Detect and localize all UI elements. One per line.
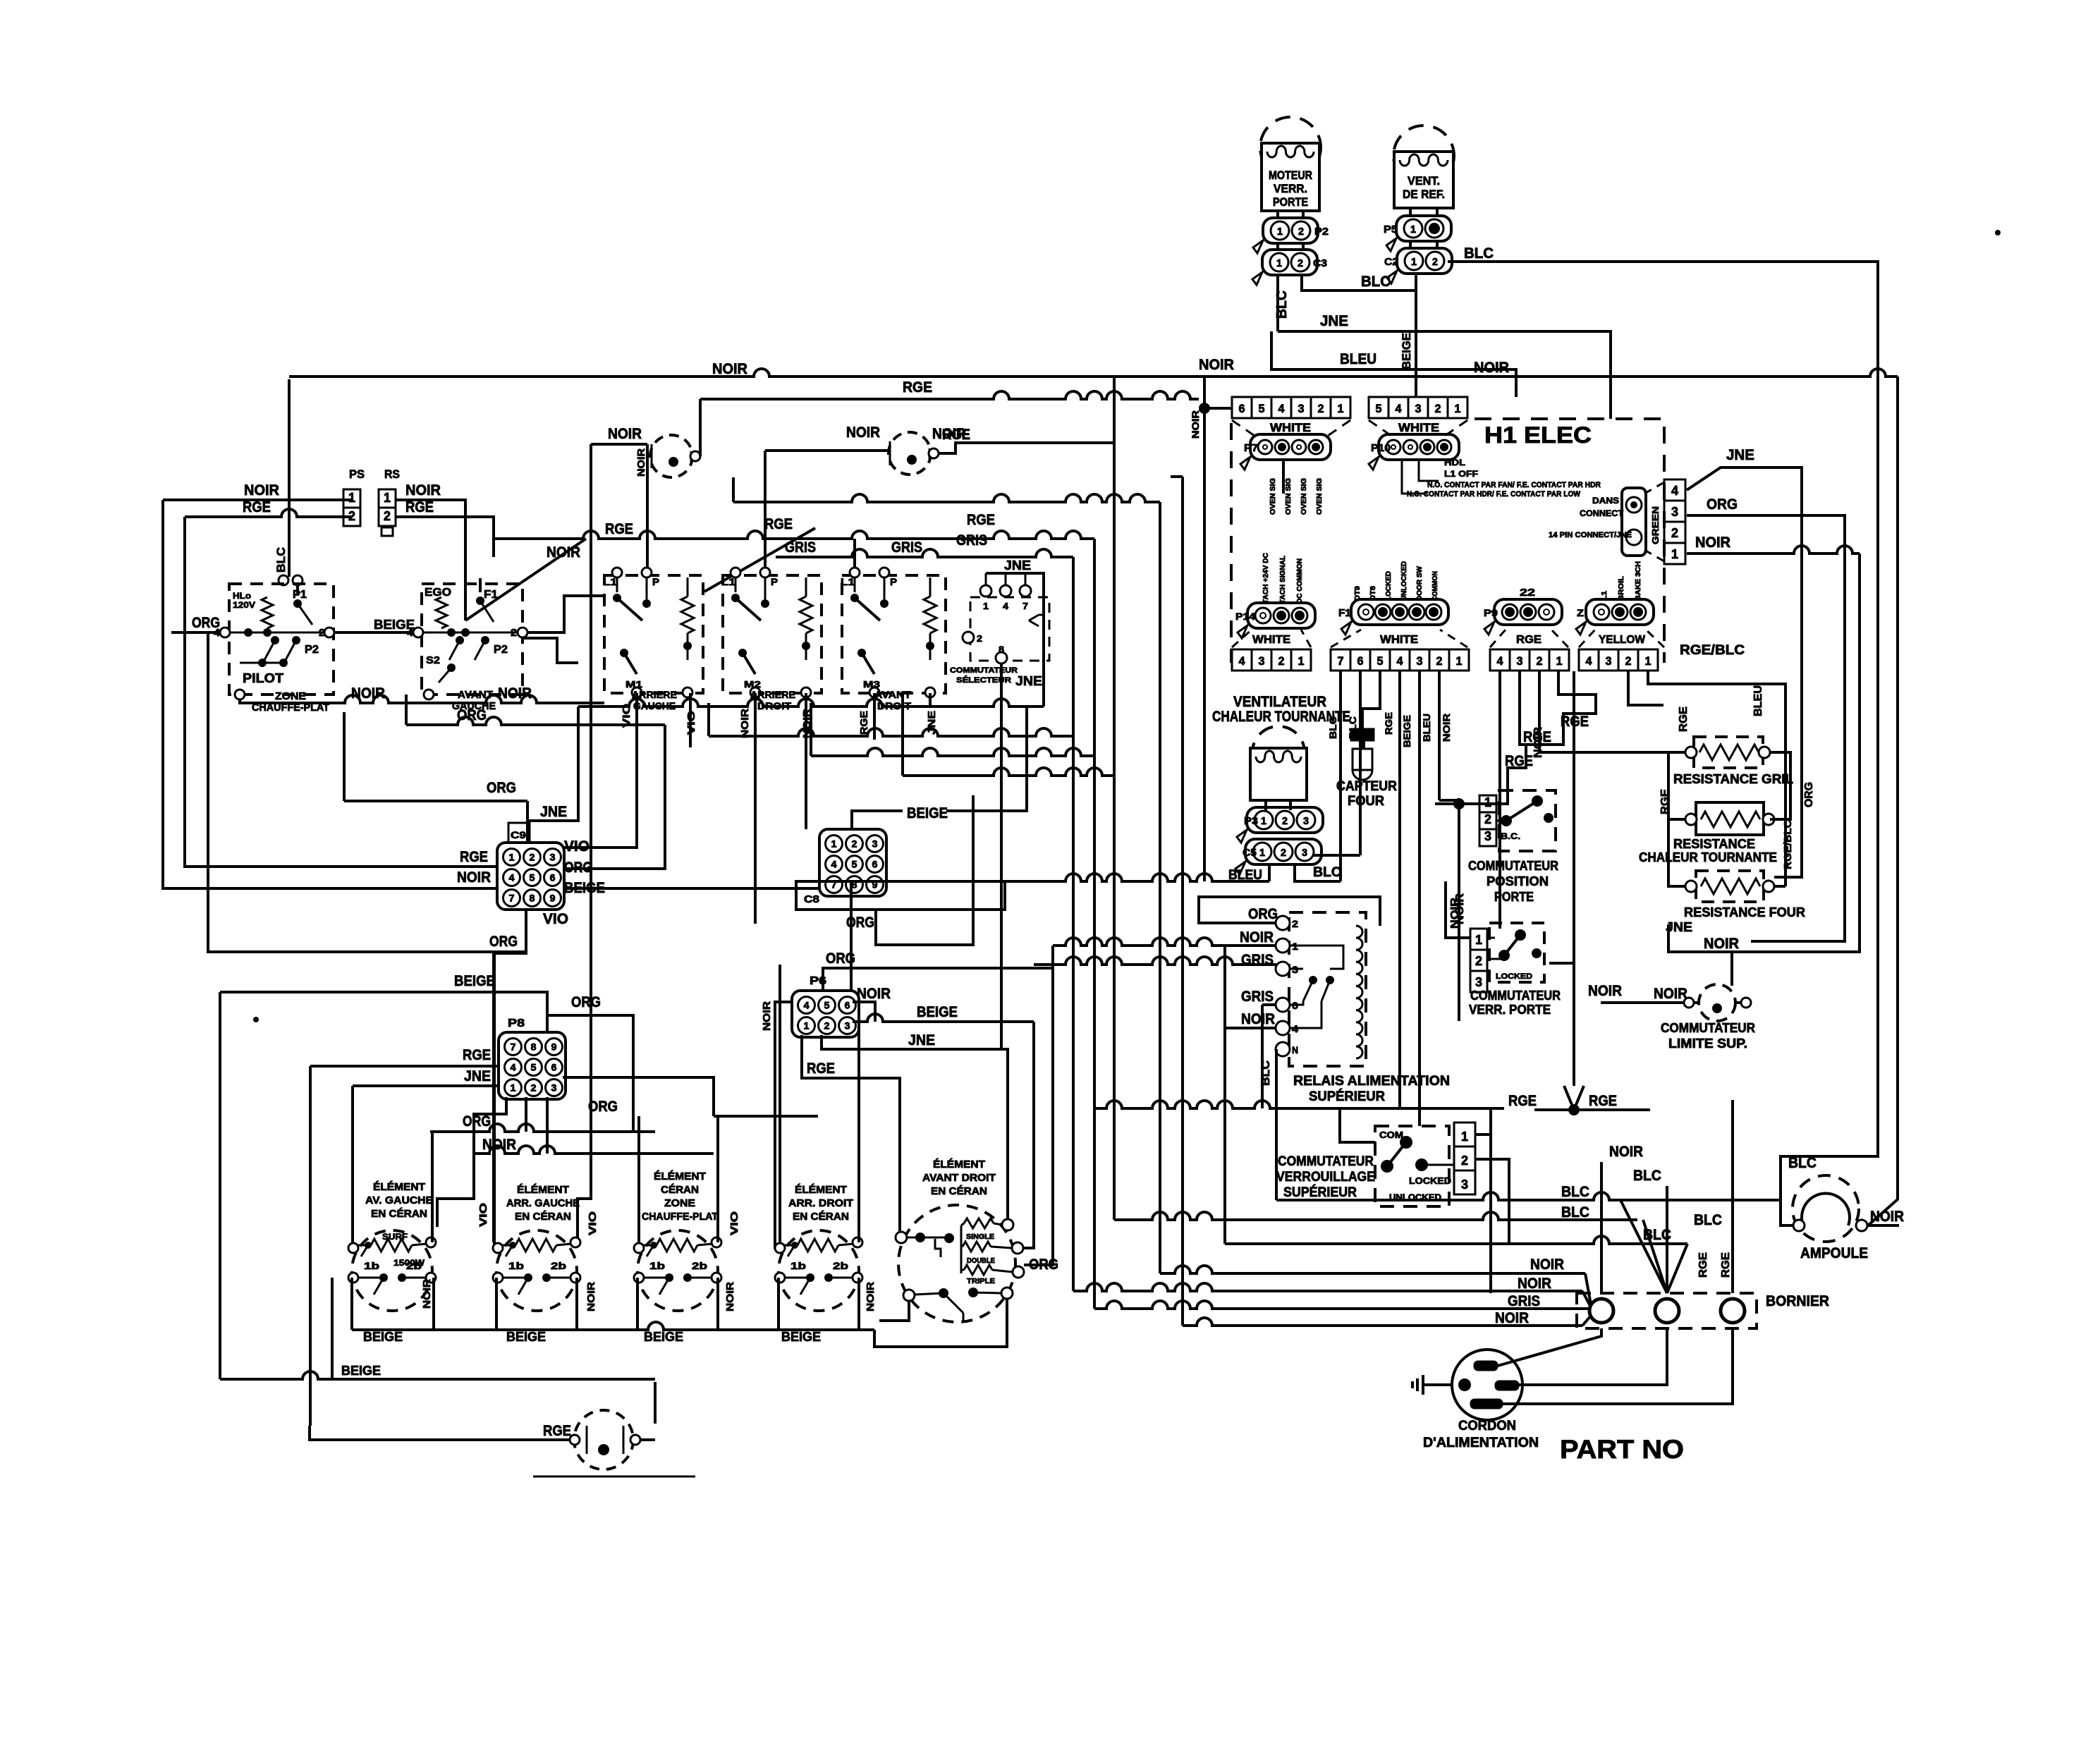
- svg-text:1: 1: [1671, 547, 1678, 561]
- svg-text:GRIS: GRIS: [785, 539, 816, 556]
- svg-text:NOIR: NOIR: [635, 448, 647, 477]
- svg-text:4: 4: [509, 872, 515, 883]
- svg-text:P3: P3: [1244, 815, 1258, 827]
- svg-text:ARR. GAUCHE: ARR. GAUCHE: [506, 1197, 580, 1209]
- svg-text:SINGLE: SINGLE: [966, 1233, 994, 1241]
- svg-text:C2: C2: [1384, 256, 1398, 268]
- svg-text:ORG: ORG: [826, 950, 855, 967]
- svg-text:MOTEUR: MOTEUR: [1269, 169, 1312, 182]
- svg-text:3: 3: [1298, 402, 1305, 415]
- svg-text:EN CÉRAN: EN CÉRAN: [931, 1185, 987, 1197]
- svg-text:C5: C5: [1243, 847, 1257, 859]
- svg-text:BROIL: BROIL: [1618, 576, 1625, 601]
- svg-text:PS: PS: [349, 467, 365, 481]
- svg-text:BLEU: BLEU: [1752, 685, 1764, 716]
- svg-text:M3: M3: [863, 679, 880, 690]
- svg-text:7: 7: [1022, 601, 1028, 611]
- svg-text:M2: M2: [744, 679, 761, 690]
- svg-text:1: 1: [509, 852, 515, 863]
- svg-text:2: 2: [1461, 1154, 1468, 1168]
- svg-text:NOIR: NOIR: [1530, 1256, 1564, 1273]
- svg-text:Z: Z: [1577, 607, 1585, 618]
- svg-text:CÉRAN: CÉRAN: [661, 1184, 699, 1196]
- svg-text:HDL: HDL: [1444, 458, 1465, 467]
- svg-text:EN CÉRAN: EN CÉRAN: [371, 1208, 427, 1220]
- svg-text:VENT.: VENT.: [1408, 174, 1440, 188]
- svg-text:COMMON: COMMON: [1431, 571, 1439, 601]
- svg-text:DE REF.: DE REF.: [1403, 188, 1445, 201]
- svg-text:2: 2: [1671, 526, 1678, 540]
- svg-text:L1: L1: [721, 576, 735, 587]
- svg-text:N.O. CONTACT PAR HDR/ F.E. CON: N.O. CONTACT PAR HDR/ F.E. CONTACT PAR L…: [1407, 490, 1581, 499]
- svg-text:SUPÉRIEUR: SUPÉRIEUR: [1283, 1185, 1357, 1200]
- svg-text:8: 8: [530, 893, 535, 904]
- svg-text:3: 3: [1259, 654, 1265, 668]
- svg-text:NOIR: NOIR: [1199, 357, 1234, 373]
- svg-text:RGE: RGE: [1720, 1252, 1732, 1278]
- svg-text:RGE: RGE: [1505, 753, 1533, 769]
- svg-text:AVANT DROIT: AVANT DROIT: [922, 1172, 996, 1184]
- svg-text:PART NO: PART NO: [1560, 1435, 1684, 1464]
- svg-text:ORG: ORG: [846, 915, 874, 931]
- svg-text:5: 5: [852, 859, 857, 870]
- svg-text:4: 4: [831, 859, 837, 870]
- svg-text:BLC: BLC: [1259, 1060, 1272, 1086]
- svg-text:NOIR: NOIR: [865, 1282, 877, 1311]
- svg-text:GRIS: GRIS: [891, 539, 922, 556]
- svg-text:P10: P10: [1371, 442, 1391, 454]
- svg-text:RGE: RGE: [764, 516, 793, 532]
- svg-text:P9: P9: [1484, 607, 1498, 618]
- svg-text:3: 3: [1606, 654, 1612, 668]
- svg-text:1500W: 1500W: [393, 1258, 425, 1268]
- svg-text:ORG: ORG: [1707, 496, 1738, 513]
- svg-text:1: 1: [804, 1020, 810, 1032]
- svg-text:BLC: BLC: [1561, 1204, 1589, 1221]
- svg-text:1: 1: [1456, 654, 1463, 668]
- svg-text:5: 5: [530, 872, 535, 883]
- svg-text:GRIS: GRIS: [1508, 1293, 1540, 1309]
- svg-text:6: 6: [845, 1000, 850, 1011]
- svg-text:CHALEUR TOURNANTE: CHALEUR TOURNANTE: [1212, 709, 1350, 725]
- svg-text:2: 2: [1625, 654, 1632, 668]
- svg-text:NOIR: NOIR: [244, 482, 279, 499]
- svg-text:6: 6: [1357, 654, 1364, 668]
- svg-text:LIMITE SUP.: LIMITE SUP.: [1668, 1036, 1747, 1051]
- svg-text:RESISTANCE GRIL: RESISTANCE GRIL: [1673, 772, 1793, 786]
- svg-text:TACH SIGNAL: TACH SIGNAL: [1279, 556, 1287, 604]
- svg-text:RGE: RGE: [903, 379, 932, 396]
- svg-text:4: 4: [1396, 402, 1403, 415]
- svg-text:NOIR: NOIR: [405, 482, 441, 499]
- svg-text:VIO: VIO: [564, 838, 590, 855]
- svg-text:CHALEUR TOURNANTE: CHALEUR TOURNANTE: [1639, 850, 1777, 864]
- svg-text:POSITION: POSITION: [1487, 874, 1549, 888]
- svg-text:H1 ELEC: H1 ELEC: [1484, 422, 1592, 448]
- svg-text:D'ALIMENTATION: D'ALIMENTATION: [1423, 1436, 1539, 1450]
- svg-text:4: 4: [1671, 484, 1678, 498]
- svg-text:BEIGE: BEIGE: [454, 973, 495, 989]
- svg-text:2: 2: [977, 633, 982, 644]
- svg-text:5: 5: [1376, 402, 1382, 415]
- svg-text:1b: 1b: [364, 1260, 379, 1271]
- svg-text:YELLOW: YELLOW: [1599, 634, 1646, 646]
- svg-text:2: 2: [1298, 226, 1304, 238]
- svg-text:TACH +24V DC: TACH +24V DC: [1262, 553, 1270, 604]
- svg-text:VERR.: VERR.: [1274, 182, 1307, 195]
- svg-text:4: 4: [804, 1000, 810, 1011]
- svg-text:RELAIS ALIMENTATION: RELAIS ALIMENTATION: [1293, 1074, 1450, 1089]
- svg-text:1: 1: [1298, 654, 1305, 668]
- svg-text:NOIR: NOIR: [1518, 1276, 1551, 1292]
- svg-text:3: 3: [1671, 505, 1678, 519]
- svg-text:NOIR: NOIR: [724, 1282, 736, 1311]
- svg-text:NOIR: NOIR: [1190, 410, 1201, 439]
- svg-text:ZONE: ZONE: [275, 690, 306, 702]
- svg-text:CAPTEUR: CAPTEUR: [1336, 779, 1397, 794]
- svg-text:N.O. CONTACT PAR FAN/ F.E. CON: N.O. CONTACT PAR FAN/ F.E. CONTACT PAR H…: [1427, 481, 1601, 489]
- svg-text:JNE: JNE: [1004, 558, 1031, 573]
- svg-text:RGE: RGE: [460, 849, 488, 865]
- svg-text:VIO: VIO: [728, 1211, 740, 1235]
- svg-text:2: 2: [1537, 654, 1543, 668]
- svg-text:UNLOCKED: UNLOCKED: [1400, 561, 1408, 601]
- svg-text:RGE/BLC: RGE/BLC: [1782, 820, 1794, 869]
- svg-text:3: 3: [1461, 1178, 1468, 1192]
- svg-text:3: 3: [872, 838, 878, 850]
- svg-text:BLC: BLC: [1694, 1212, 1722, 1228]
- svg-text:1: 1: [1455, 402, 1461, 415]
- svg-text:2: 2: [1318, 402, 1324, 415]
- svg-text:BLEU: BLEU: [1340, 351, 1376, 367]
- svg-text:RGE: RGE: [405, 499, 434, 515]
- svg-text:RGE: RGE: [967, 512, 995, 528]
- svg-text:ÉLÉMENT: ÉLÉMENT: [373, 1181, 425, 1193]
- svg-text:EN CÉRAN: EN CÉRAN: [515, 1211, 571, 1223]
- svg-text:P7: P7: [1244, 442, 1258, 454]
- svg-text:ORG: ORG: [1248, 906, 1278, 922]
- svg-text:NOIR: NOIR: [351, 685, 385, 702]
- svg-text:JNE: JNE: [464, 1068, 491, 1084]
- svg-text:2: 2: [1278, 654, 1285, 668]
- svg-text:DOOR SW: DOOR SW: [1416, 565, 1424, 601]
- svg-text:C9: C9: [511, 829, 526, 840]
- svg-text:CONNECT: CONNECT: [1580, 508, 1624, 518]
- svg-text:22: 22: [1520, 587, 1535, 599]
- svg-text:NOIR: NOIR: [421, 1279, 433, 1309]
- svg-text:COMMUTATEUR: COMMUTATEUR: [1661, 1021, 1755, 1035]
- svg-text:NOIR: NOIR: [1495, 1310, 1529, 1326]
- svg-text:ORG: ORG: [571, 994, 601, 1010]
- svg-text:RGE: RGE: [605, 521, 633, 537]
- svg-text:BLEU: BLEU: [1421, 714, 1432, 742]
- svg-text:VIO: VIO: [477, 1203, 489, 1227]
- svg-text:RESISTANCE FOUR: RESISTANCE FOUR: [1684, 905, 1805, 919]
- svg-text:3: 3: [1415, 402, 1422, 415]
- svg-text:NOIR: NOIR: [585, 1282, 597, 1311]
- svg-text:2: 2: [1484, 812, 1491, 826]
- svg-text:LOCKED: LOCKED: [1496, 972, 1532, 981]
- svg-text:120V: 120V: [233, 600, 255, 610]
- svg-text:LOCKED: LOCKED: [1385, 571, 1393, 601]
- svg-text:1: 1: [1277, 226, 1283, 238]
- svg-text:M1: M1: [625, 679, 642, 690]
- svg-text:ORG: ORG: [457, 707, 487, 723]
- svg-text:NOIR: NOIR: [1870, 1209, 1904, 1225]
- svg-text:BEIGE: BEIGE: [506, 1330, 546, 1344]
- svg-text:HLo: HLo: [233, 591, 251, 601]
- svg-text:7: 7: [511, 1041, 516, 1053]
- svg-text:1: 1: [1645, 654, 1652, 668]
- svg-text:P: P: [771, 576, 778, 587]
- svg-text:P1: P1: [293, 589, 307, 601]
- svg-text:5: 5: [531, 1062, 537, 1073]
- svg-text:7: 7: [1338, 654, 1344, 668]
- svg-text:P: P: [890, 576, 897, 587]
- svg-text:2: 2: [1281, 847, 1286, 859]
- svg-text:2: 2: [1436, 654, 1443, 668]
- svg-text:3: 3: [1484, 829, 1491, 843]
- svg-text:PORTE: PORTE: [1273, 195, 1308, 209]
- svg-text:SÉLECTEUR: SÉLECTEUR: [956, 675, 1011, 685]
- svg-text:B.C.: B.C.: [1501, 831, 1520, 841]
- svg-text:1b: 1b: [508, 1260, 524, 1271]
- svg-text:BEIGE: BEIGE: [1400, 333, 1413, 369]
- svg-text:1: 1: [384, 491, 391, 505]
- svg-text:VERR. PORTE: VERR. PORTE: [1469, 1003, 1551, 1017]
- svg-text:ÉLÉMENT: ÉLÉMENT: [517, 1184, 569, 1196]
- svg-text:1: 1: [1461, 1130, 1468, 1144]
- svg-text:2: 2: [852, 838, 857, 850]
- svg-text:P2: P2: [494, 644, 508, 656]
- svg-text:4: 4: [511, 1062, 516, 1073]
- svg-text:2: 2: [1432, 256, 1438, 268]
- svg-text:BEIGE: BEIGE: [907, 805, 948, 821]
- svg-text:1: 1: [983, 601, 989, 611]
- svg-text:NOIR: NOIR: [1474, 360, 1509, 376]
- svg-text:F1: F1: [1338, 607, 1351, 619]
- svg-text:ORG: ORG: [564, 860, 592, 876]
- svg-text:1: 1: [1411, 256, 1417, 268]
- svg-text:1: 1: [1261, 815, 1266, 827]
- svg-text:VIO: VIO: [587, 1211, 599, 1235]
- svg-text:NOIR: NOIR: [739, 709, 751, 738]
- svg-text:L1 OFF: L1 OFF: [1444, 469, 1478, 479]
- svg-text:RGE: RGE: [1697, 1252, 1709, 1278]
- svg-text:NOIR: NOIR: [1654, 986, 1687, 1002]
- svg-text:L1: L1: [1601, 590, 1608, 601]
- svg-text:BEIGE: BEIGE: [341, 1364, 381, 1378]
- svg-text:3: 3: [1475, 975, 1482, 989]
- svg-text:C3: C3: [1313, 257, 1327, 269]
- svg-text:RGE/BLC: RGE/BLC: [1680, 643, 1745, 658]
- svg-text:3: 3: [1417, 654, 1423, 668]
- svg-text:3: 3: [1302, 847, 1307, 859]
- svg-text:RS: RS: [384, 467, 400, 481]
- svg-text:6: 6: [550, 872, 556, 883]
- svg-text:BORNIER: BORNIER: [1766, 1293, 1829, 1309]
- svg-text:OVEN SIG: OVEN SIG: [1300, 478, 1308, 515]
- svg-text:6: 6: [551, 1062, 557, 1073]
- svg-text:1: 1: [1259, 847, 1265, 859]
- svg-text:BEIGE: BEIGE: [644, 1330, 683, 1344]
- svg-text:RGE: RGE: [1516, 634, 1542, 646]
- svg-text:BEIGE: BEIGE: [363, 1330, 403, 1344]
- svg-text:1b: 1b: [649, 1260, 665, 1271]
- svg-text:PORTE: PORTE: [1494, 890, 1534, 904]
- svg-text:2b: 2b: [692, 1260, 707, 1271]
- svg-text:GRIS: GRIS: [956, 532, 987, 549]
- svg-text:4: 4: [1497, 654, 1504, 668]
- svg-text:ORG: ORG: [1029, 1256, 1058, 1273]
- svg-text:ORG: ORG: [588, 1099, 618, 1115]
- svg-text:NOIR: NOIR: [857, 986, 891, 1002]
- svg-text:2: 2: [1282, 815, 1288, 827]
- svg-text:BLC: BLC: [1633, 1168, 1661, 1184]
- svg-text:SUPÉRIEUR: SUPÉRIEUR: [1309, 1089, 1385, 1104]
- svg-text:NOIR: NOIR: [1241, 1011, 1275, 1027]
- svg-text:TRIPLE: TRIPLE: [967, 1278, 995, 1285]
- svg-text:ÉLÉMENT: ÉLÉMENT: [654, 1170, 706, 1182]
- svg-text:COMMUTATEUR: COMMUTATEUR: [950, 666, 1018, 675]
- svg-text:WHITE: WHITE: [1398, 421, 1439, 434]
- svg-text:RGE: RGE: [243, 499, 271, 515]
- svg-text:5: 5: [1259, 402, 1265, 415]
- svg-text:NOIR: NOIR: [1240, 929, 1274, 946]
- svg-text:N: N: [1292, 1044, 1298, 1056]
- svg-text:RGE: RGE: [1508, 1093, 1537, 1109]
- svg-text:2: 2: [1292, 918, 1298, 929]
- svg-text:NOIR: NOIR: [846, 424, 880, 441]
- svg-text:CORDON: CORDON: [1458, 1419, 1516, 1433]
- svg-text:COM: COM: [1379, 1130, 1403, 1140]
- svg-text:P2: P2: [305, 644, 319, 656]
- svg-text:ORG: ORG: [489, 934, 518, 950]
- svg-text:WHITE: WHITE: [1252, 634, 1290, 646]
- svg-text:VENTILATEUR: VENTILATEUR: [1233, 694, 1326, 710]
- svg-text:2: 2: [530, 852, 535, 863]
- svg-text:1: 1: [1338, 402, 1344, 415]
- svg-text:1: 1: [831, 838, 837, 850]
- svg-text:BAKE 3CH: BAKE 3CH: [1635, 561, 1642, 601]
- svg-text:P: P: [652, 576, 659, 587]
- svg-text:8: 8: [999, 644, 1004, 654]
- svg-text:ORG: ORG: [463, 1113, 491, 1130]
- svg-text:RGE: RGE: [543, 1423, 571, 1439]
- svg-text:LOCKED: LOCKED: [1409, 1175, 1451, 1186]
- svg-text:1: 1: [511, 1082, 516, 1094]
- svg-text:5: 5: [824, 1000, 830, 1011]
- svg-text:AMPOULE: AMPOULE: [1800, 1245, 1868, 1261]
- svg-text:JNE: JNE: [1320, 313, 1348, 329]
- svg-text:4: 4: [1586, 654, 1593, 668]
- svg-text:5: 5: [1377, 654, 1384, 668]
- svg-text:P14: P14: [1235, 611, 1255, 622]
- svg-text:OVEN SIG: OVEN SIG: [1269, 478, 1277, 515]
- svg-text:NOIR: NOIR: [1695, 534, 1730, 551]
- svg-text:NOIR: NOIR: [498, 685, 532, 702]
- svg-text:2: 2: [1298, 257, 1303, 269]
- svg-text:RGE: RGE: [807, 1060, 835, 1077]
- svg-text:NOIR: NOIR: [1441, 714, 1452, 742]
- svg-text:DT8: DT8: [1369, 586, 1377, 601]
- svg-text:14 PIN CONNECT/JNE: 14 PIN CONNECT/JNE: [1549, 531, 1632, 539]
- svg-text:GRIS: GRIS: [1241, 989, 1274, 1005]
- svg-text:VERROUILLAGE: VERROUILLAGE: [1276, 1170, 1375, 1185]
- svg-text:P2: P2: [1314, 226, 1329, 238]
- svg-text:P5: P5: [1384, 224, 1398, 236]
- svg-text:EN CÉRAN: EN CÉRAN: [793, 1211, 849, 1223]
- svg-text:NOIR: NOIR: [1588, 983, 1622, 999]
- svg-text:PILOT: PILOT: [243, 671, 283, 685]
- svg-text:1: 1: [348, 491, 355, 505]
- svg-text:GREEN: GREEN: [1650, 506, 1661, 544]
- svg-text:RESISTANCE: RESISTANCE: [1673, 837, 1755, 851]
- svg-text:2: 2: [1435, 402, 1441, 415]
- svg-text:FOUR: FOUR: [1348, 794, 1384, 809]
- svg-text:L1: L1: [603, 576, 617, 587]
- svg-text:1b: 1b: [790, 1260, 806, 1271]
- svg-text:P8: P8: [508, 1017, 525, 1029]
- svg-text:2: 2: [1475, 954, 1482, 968]
- svg-text:2b: 2b: [551, 1260, 566, 1271]
- svg-text:6: 6: [872, 859, 878, 870]
- svg-text:BLC: BLC: [1361, 274, 1391, 290]
- svg-text:RGE: RGE: [1589, 1093, 1617, 1109]
- svg-text:COMMUTATEUR: COMMUTATEUR: [1278, 1154, 1374, 1169]
- svg-text:NOIR: NOIR: [712, 361, 747, 377]
- svg-text:2: 2: [531, 1082, 537, 1094]
- svg-text:RGE: RGE: [1678, 707, 1690, 732]
- svg-text:3: 3: [551, 1082, 557, 1094]
- svg-text:4: 4: [1278, 402, 1286, 415]
- svg-text:BLC: BLC: [274, 547, 288, 573]
- svg-text:2: 2: [824, 1020, 830, 1032]
- svg-text:1: 1: [1475, 933, 1482, 947]
- svg-text:3: 3: [1517, 654, 1523, 668]
- svg-text:ARR. DROIT: ARR. DROIT: [788, 1197, 853, 1209]
- svg-text:DC COMMON: DC COMMON: [1296, 558, 1304, 604]
- svg-text:BLC: BLC: [1464, 245, 1494, 262]
- svg-text:1: 1: [1556, 654, 1563, 668]
- svg-text:NOIR: NOIR: [1704, 936, 1739, 952]
- svg-text:7: 7: [509, 893, 515, 904]
- svg-text:DT9: DT9: [1354, 586, 1362, 601]
- svg-text:VIO: VIO: [543, 911, 568, 927]
- svg-text:JNE: JNE: [1015, 674, 1042, 688]
- svg-text:DOUBLE: DOUBLE: [967, 1257, 995, 1265]
- svg-text:WHITE: WHITE: [1380, 634, 1418, 646]
- svg-text:BLC: BLC: [1788, 1155, 1817, 1171]
- svg-text:EGO: EGO: [425, 587, 451, 599]
- svg-text:JNE: JNE: [1726, 447, 1754, 463]
- svg-text:NOIR: NOIR: [1532, 727, 1544, 758]
- svg-text:2b: 2b: [833, 1260, 848, 1271]
- svg-text:ORG: ORG: [487, 780, 516, 796]
- svg-text:AV. GAUCHE: AV. GAUCHE: [365, 1194, 433, 1206]
- svg-text:8: 8: [531, 1041, 537, 1053]
- svg-text:ÉLÉMENT: ÉLÉMENT: [795, 1184, 847, 1196]
- svg-text:SURF: SURF: [382, 1232, 408, 1242]
- svg-text:6: 6: [1239, 402, 1245, 415]
- svg-text:JNE: JNE: [908, 1032, 935, 1048]
- svg-text:C8: C8: [804, 893, 819, 905]
- svg-text:ÉLÉMENT: ÉLÉMENT: [933, 1158, 985, 1170]
- svg-text:RGE: RGE: [1383, 712, 1394, 735]
- svg-text:COMMUTATEUR: COMMUTATEUR: [1470, 989, 1561, 1003]
- svg-text:2: 2: [384, 509, 391, 523]
- svg-text:S2: S2: [426, 654, 440, 666]
